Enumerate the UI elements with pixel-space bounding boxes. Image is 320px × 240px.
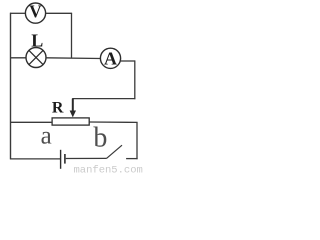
svg-text:R: R [52,100,64,117]
switch S (open blade) [107,145,138,158]
ammeter A [100,48,120,68]
svg-text:a: a [41,122,52,149]
svg-text:b: b [93,123,107,154]
wire: ammeter right horizontal [121,60,135,62]
wire: lamp row right segment to ammeter [46,57,101,60]
rheostat R body (resistor box) [52,118,89,125]
wire: battery to switch horizontal [66,157,107,159]
wire: lamp row left segment [10,57,26,59]
lamp L (circle with X) [26,48,46,68]
svg-text:manfen5.com: manfen5.com [74,165,143,175]
svg-text:A: A [104,48,117,68]
wire: rheostat row left segment [10,121,52,123]
rheostat slider arrow [70,99,76,118]
wire: vertical drop from voltmeter branch to lamp row [71,13,73,58]
wire: left vertical bus [10,13,12,160]
wire: bottom horizontal to battery [10,158,60,160]
wire: top-left horizontal to voltmeter [10,12,26,14]
wire: right vertical from rheostat row down to switch [136,122,138,159]
wire: right vertical from ammeter down to slider wire [134,60,136,99]
wire: rheostat row right segment [89,121,137,123]
wire: slider horizontal wire [72,98,135,100]
battery cell [61,150,65,169]
svg-text:V: V [29,1,42,21]
voltmeter V [25,1,45,23]
wire: voltmeter right horizontal [46,12,73,14]
